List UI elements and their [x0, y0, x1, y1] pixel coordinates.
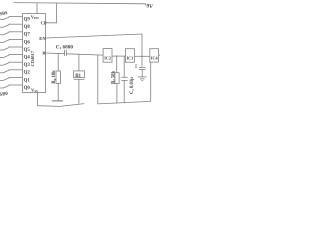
- svg-text:Q0: Q0: [24, 86, 31, 91]
- switch SB3: [0, 64, 3, 66]
- switch SB1: [0, 79, 3, 81]
- svg-text:VSS: VSS: [31, 87, 38, 93]
- svg-text:Q2: Q2: [24, 71, 31, 76]
- wire Q9 pin: [9, 16, 22, 18]
- wire R2 top lead: [116, 56, 118, 73]
- wire EN drop to C3 node: [141, 34, 143, 67]
- ground below C3: [138, 76, 147, 78]
- potentiometer RP body: [56, 71, 61, 83]
- wire Q5 pin: [9, 46, 22, 48]
- svg-text:C1 6800: C1 6800: [56, 44, 74, 50]
- svg-text:IC2: IC2: [104, 55, 111, 60]
- wire C2 bottom lead: [123, 80, 125, 103]
- ground below RP: [52, 100, 63, 102]
- svg-text:Q6: Q6: [24, 40, 31, 45]
- wire bottom rail left segment: [37, 104, 84, 107]
- svg-text:EN: EN: [39, 36, 46, 41]
- svg-text:SB0: SB0: [0, 92, 9, 98]
- node junction dot: [141, 56, 143, 58]
- wire IC4 bottom lead: [150, 62, 152, 101]
- op-amp U1 IC1 CD4017 body: [23, 14, 46, 93]
- switch SB2: [0, 72, 3, 74]
- switch SB5: [0, 49, 3, 51]
- wire IC4 output stub: [159, 54, 161, 56]
- wire R2 bottom lead: [116, 84, 118, 104]
- switch SB6: [0, 41, 3, 43]
- wire junction drop to rail: [97, 55, 99, 104]
- switch SB7: [0, 34, 3, 36]
- svg-text:Q8: Q8: [24, 25, 31, 30]
- wire top supply rail: [14, 3, 147, 4]
- wire B1 top lead: [78, 54, 80, 71]
- capacitor C2: [121, 76, 127, 78]
- wire Q3 pin: [9, 61, 22, 63]
- wire Q1 pin: [9, 76, 22, 78]
- wire bottom rail right segment: [97, 101, 150, 104]
- svg-text:B1: B1: [75, 74, 81, 79]
- wire B1 bottom lead: [78, 79, 80, 103]
- wire Q0 pin: [9, 84, 22, 86]
- switch SB0: [0, 87, 3, 89]
- wire VDD pin drop: [36, 3, 38, 14]
- svg-text:IC3: IC3: [127, 55, 134, 60]
- wire IC2 to IC3: [112, 55, 125, 57]
- wire RP top lead: [57, 54, 59, 72]
- svg-text:9V: 9V: [146, 3, 153, 10]
- capacitor C3: [139, 67, 146, 69]
- IC2 box: [103, 49, 112, 63]
- wire EN pin run to right: [46, 34, 142, 38]
- svg-text:IC4: IC4: [151, 55, 159, 60]
- capacitor C1: [64, 50, 66, 56]
- wire CP riser to rail: [46, 3, 57, 23]
- IC4 box: [150, 49, 159, 62]
- svg-text:C2 0.01μ: C2 0.01μ: [130, 77, 135, 94]
- svg-text:R2 50k: R2 50k: [111, 70, 116, 84]
- svg-text:RP 10k: RP 10k: [52, 70, 57, 84]
- svg-text:SB9: SB9: [0, 10, 8, 16]
- svg-text:Q7: Q7: [24, 33, 31, 38]
- node 9V terminal tick: [145, 4, 147, 6]
- wire Q2 pin: [9, 69, 22, 71]
- svg-text:CD4017: CD4017: [30, 50, 35, 66]
- wire Q8 pin: [9, 23, 22, 25]
- switch SB4: [0, 57, 3, 59]
- svg-text:C3: C3: [134, 64, 138, 68]
- wire VSS drop to ground rail: [36, 93, 38, 106]
- resistor R2 body: [115, 73, 119, 84]
- switch SB9: [0, 19, 3, 21]
- svg-text:VDD: VDD: [31, 14, 40, 20]
- buzzer B1 body: [74, 71, 85, 78]
- svg-text:CP: CP: [41, 21, 47, 26]
- wire C2 top lead: [123, 56, 125, 77]
- buzzer B1 plate: [74, 78, 85, 80]
- switch SB8: [0, 26, 3, 28]
- wire Q6 pin: [9, 38, 22, 40]
- wire R pin run with C1: [46, 52, 65, 55]
- svg-text:Q1: Q1: [24, 78, 31, 83]
- wire Q4 pin: [9, 54, 22, 56]
- wire RP bottom lead: [57, 83, 59, 100]
- wire Q7 pin: [9, 31, 22, 33]
- wire IC3 to IC4: [134, 55, 149, 57]
- IC3 box: [125, 49, 134, 63]
- svg-text:Q9: Q9: [24, 18, 31, 23]
